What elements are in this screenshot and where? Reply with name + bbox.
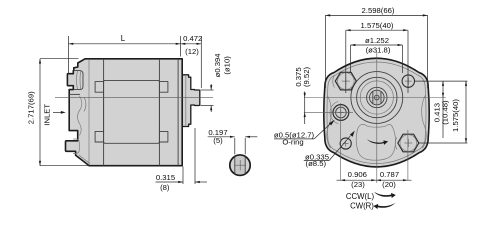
- svg-text:2.717(69): 2.717(69): [26, 91, 35, 124]
- svg-text:(12): (12): [185, 47, 199, 56]
- svg-text:ø0.394: ø0.394: [213, 53, 222, 78]
- svg-text:1.575(40): 1.575(40): [361, 21, 394, 30]
- rear plate outline: [182, 75, 200, 127]
- front inner contour: [327, 62, 426, 164]
- dimension ø1.252 (ø31.8): [351, 36, 403, 73]
- INLET label: [43, 104, 66, 126]
- svg-text:CCW(L): CCW(L): [346, 192, 375, 201]
- svg-text:(9.52): (9.52): [302, 67, 311, 88]
- seal ring: [360, 81, 393, 114]
- dimension L: [69, 34, 181, 74]
- svg-text:1.575(40): 1.575(40): [451, 99, 460, 132]
- label CCW(L): [346, 192, 396, 201]
- rotation arrow in body: [367, 139, 388, 145]
- gear housing inner rect: [158, 59, 160, 166]
- svg-text:(10.48): (10.48): [441, 100, 450, 125]
- shaft ring: [367, 87, 387, 107]
- svg-text:(23): (23): [351, 180, 365, 189]
- center hole: [375, 95, 380, 100]
- shaft centerline: [55, 97, 213, 99]
- blob contour: [356, 124, 395, 160]
- body outline: [66, 59, 183, 166]
- dimension 0.906(23) / 0.787(20): [337, 170, 412, 189]
- shaft flat band: [373, 90, 381, 105]
- dimension 2.598(66): [325, 6, 427, 88]
- dimension 2.717(69): [26, 59, 88, 166]
- casting wave right: [422, 95, 427, 148]
- svg-text:2.598(66): 2.598(66): [362, 6, 395, 15]
- shaft flat left: [372, 91, 374, 103]
- hex bolt bottom-right: [395, 134, 418, 152]
- bolt hole top-right: [402, 75, 414, 87]
- bolt boss notch top-right: [159, 82, 168, 93]
- front body outline: [324, 58, 429, 167]
- end cover joint line: [177, 59, 179, 165]
- main vertical centerline: [376, 52, 378, 183]
- svg-text:(ø31.8): (ø31.8): [366, 46, 391, 55]
- svg-text:INLET: INLET: [43, 104, 52, 126]
- flange face line: [88, 59, 90, 165]
- dimension 0.315 (8): [156, 128, 208, 192]
- svg-text:(20): (20): [382, 180, 396, 189]
- bolt BR vertical extension: [407, 130, 409, 180]
- svg-text:0.787: 0.787: [380, 170, 399, 179]
- bolt boss notch top-left: [95, 82, 104, 93]
- bolt boss notch bottom-right: [159, 131, 168, 142]
- dimension 1.575(40) top: [346, 21, 408, 93]
- bolt boss notch bottom-left: [95, 131, 104, 142]
- flange bottom chamfer inner line: [79, 155, 90, 163]
- hex bolt top-left: [333, 72, 356, 90]
- rear plate fill: [182, 75, 200, 127]
- bolt hole bottom-left: [340, 138, 351, 149]
- pump body fill: [66, 59, 183, 166]
- svg-text:L: L: [121, 34, 126, 43]
- svg-text:0.472: 0.472: [183, 34, 202, 43]
- central boss circle: [351, 72, 403, 124]
- dimension 1.575(40) right: [418, 81, 467, 143]
- flange joint line: [103, 59, 105, 166]
- port centerline vertical: [340, 103, 342, 180]
- inlet hex collar lower: [73, 139, 79, 153]
- svg-text:(5): (5): [213, 136, 223, 145]
- port centerline horizontal: [304, 111, 353, 113]
- inlet port face ledge: [69, 93, 80, 95]
- flange casting rib mid: [84, 97, 86, 112]
- dimension 0.197 (5): [208, 128, 258, 154]
- svg-text:CW(R): CW(R): [350, 202, 374, 211]
- shaft circle: [370, 90, 385, 105]
- dimension 0.375 (9.52): [294, 67, 311, 124]
- inlet hex collar upper: [73, 71, 83, 90]
- rear plate inner line: [185, 75, 187, 127]
- svg-text:0.906: 0.906: [348, 170, 367, 179]
- label ø0.335 (ø8.5): [304, 131, 355, 169]
- shaft flat right: [380, 91, 382, 103]
- bearing ring: [357, 77, 397, 117]
- label ø0.5(ø12.7) O-ring: [274, 120, 335, 147]
- flange casting rib wavy: [77, 96, 81, 136]
- dimension ø0.394 (ø10): [201, 53, 232, 112]
- svg-text:ø1.252: ø1.252: [365, 36, 389, 45]
- dimension 0.413 (10.48): [415, 81, 468, 138]
- main horizontal centerline: [304, 97, 446, 99]
- svg-text:0.315: 0.315: [156, 173, 175, 182]
- dimension 0.472 (12): [181, 34, 203, 88]
- shaft key cross-section circle: [230, 155, 250, 175]
- svg-text:(ø10): (ø10): [222, 56, 231, 75]
- O-ring port: [330, 101, 349, 123]
- svg-text:(8): (8): [160, 183, 170, 192]
- casting wave left: [327, 95, 332, 148]
- label CW(R): [350, 202, 395, 211]
- front body fill: [324, 58, 429, 167]
